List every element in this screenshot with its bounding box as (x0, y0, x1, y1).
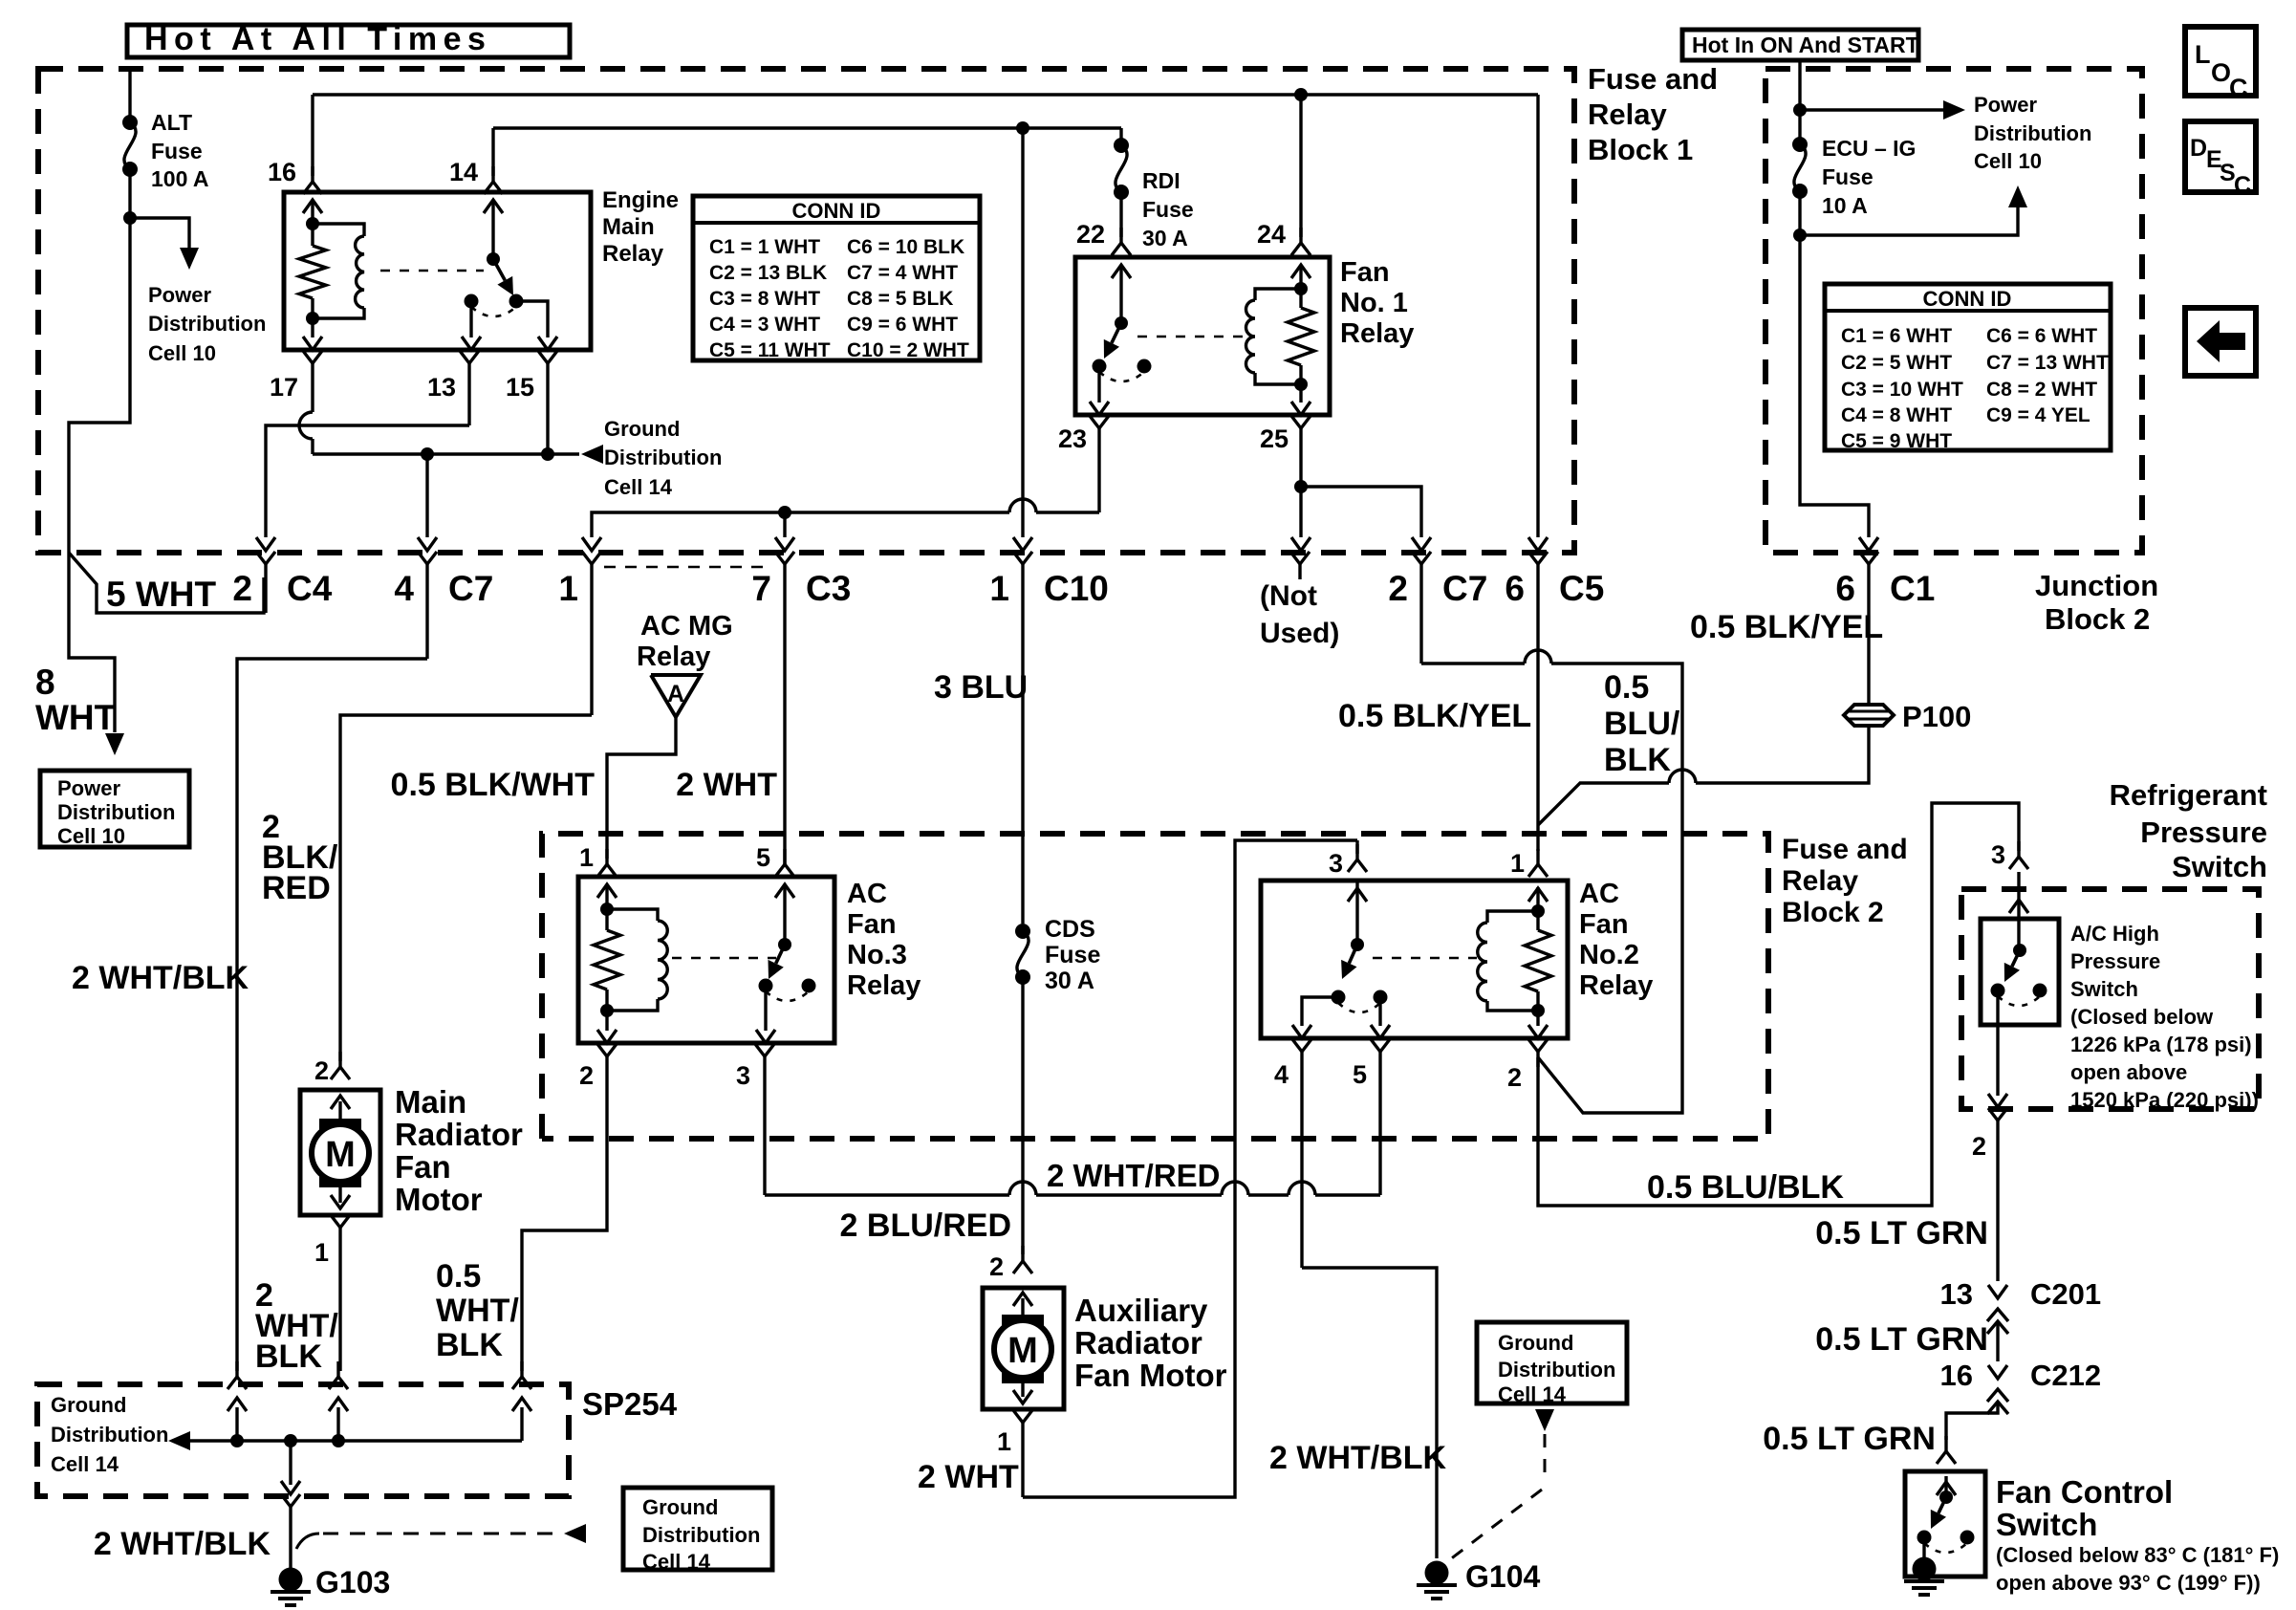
svg-text:2 WHT/BLK: 2 WHT/BLK (1269, 1440, 1447, 1476)
svg-text:Fuse: Fuse (1822, 164, 1874, 189)
label: 2 WHT/BLK (G103) (94, 1526, 271, 1562)
component: A/C High Pressure Switch box (1981, 919, 2059, 1025)
label: pin 1 (558, 569, 578, 608)
svg-text:1: 1 (579, 843, 594, 872)
svg-text:Main: Main (602, 214, 655, 240)
svg-text:1520 kPa (220 psi)): 1520 kPa (220 psi)) (2070, 1088, 2259, 1112)
connector: C7 pin 2 (1412, 552, 1431, 664)
label: 16 C212 (1940, 1359, 2102, 1392)
node: SP254 splice G103 (284, 1434, 297, 1447)
svg-text:C5 = 9 WHT: C5 = 9 WHT (1841, 430, 1952, 452)
svg-text:Fan Motor: Fan Motor (1074, 1358, 1227, 1393)
svg-text:16: 16 (268, 158, 296, 186)
wire: relay3 coil leg (605, 887, 608, 909)
node: cell-10 return branch (1793, 228, 1807, 242)
node: pin 15 tap (541, 447, 554, 461)
svg-text:0.5: 0.5 (436, 1258, 481, 1295)
wire: Fan No.1 coil leg (1299, 266, 1302, 289)
label: relay2 pin 3 (1329, 849, 1343, 878)
fuse ALT 100 A (122, 115, 138, 177)
pin 4 connector (relay2) (1292, 1039, 1311, 1268)
node: relay2 right contact (1374, 990, 1388, 1005)
label: relay3 pin 5 (756, 843, 770, 872)
wire: relay2 resistor links (1536, 911, 1539, 1011)
wire: C7 pin 4 drop (418, 454, 437, 551)
label: ECU-IG Fuse 10 A (1822, 136, 1916, 218)
svg-text:AC MG: AC MG (640, 611, 733, 642)
link: relay3 actuation (dashed) (672, 957, 776, 960)
label: 0.5 BLU/BLK (bottom) (1647, 1169, 1844, 1206)
wire: relay coil left leg (311, 200, 314, 224)
connector: pressure switch pin 3 (2009, 841, 2028, 913)
svg-text:C7 = 4 WHT: C7 = 4 WHT (847, 262, 958, 284)
wire: relay2 coil to pin 2 (1528, 1011, 1548, 1038)
svg-text:3: 3 (736, 1061, 750, 1090)
svg-text:C3 = 8 WHT: C3 = 8 WHT (709, 288, 820, 310)
svg-text:4: 4 (1274, 1060, 1289, 1089)
node: Fan No.1 coil bottom (1294, 378, 1308, 391)
svg-text:C9 = 6 WHT: C9 = 6 WHT (847, 314, 958, 336)
node: contact right (509, 294, 524, 309)
svg-text:SP254: SP254 (582, 1386, 678, 1422)
node: coil bottom junction (306, 312, 319, 325)
wire: pin 14 feed from bus (491, 128, 494, 176)
label: 7 C3 (751, 569, 851, 608)
label: 2 WHT/BLK (G104) (1269, 1440, 1447, 1476)
svg-text:2: 2 (1972, 1132, 1986, 1161)
svg-text:3: 3 (1991, 840, 2005, 869)
label: Fan No. 1 Relay (1340, 257, 1414, 349)
svg-text:100 A: 100 A (151, 166, 209, 191)
switch: AC Fan No.3 contact arm (769, 938, 792, 979)
svg-text:1226 kPa (178 psi): 1226 kPa (178 psi) (2070, 1033, 2252, 1056)
connector: pin 1 (C3) (582, 552, 601, 715)
label: G104 (1465, 1559, 1540, 1594)
component: CONN ID table (Junction Block 2) (1825, 284, 2111, 452)
wire: branch to power distribution (1800, 108, 1944, 111)
svg-text:24: 24 (1257, 220, 1286, 249)
svg-text:BLK: BLK (255, 1338, 322, 1375)
ground: fan control switch case (1904, 1557, 1944, 1596)
arrow: up to Cell 10 (2008, 185, 2027, 207)
wire: relay3 resistor links (605, 909, 608, 1011)
banner: Hot At All Times (127, 21, 570, 57)
wire: pin 25 to not-used pin (1291, 487, 1310, 551)
resistor: AC Fan No.3 relay (594, 930, 620, 990)
svg-text:C4: C4 (287, 569, 333, 608)
junction-box: Refrigerant Pressure Switch (dashed) (1961, 889, 2259, 1109)
node: C3 pin 7 tap (778, 506, 791, 519)
pin 25 connector (1291, 416, 1310, 487)
wire: 0.5 BLK/WHT AC MG relay to relay3 pin1 (607, 717, 676, 859)
svg-text:Switch: Switch (1996, 1507, 2097, 1542)
arrow: to Ground Distribution Cell 14 (581, 445, 603, 464)
wire: bus pin16 to C5 pin6 (313, 93, 1538, 96)
wire: right contact to pin 15 (516, 301, 557, 350)
svg-text:M: M (325, 1135, 356, 1175)
arc: Fan No.1 contact throw (1099, 372, 1144, 381)
svg-text:open above 93° C (199° F)): open above 93° C (199° F)) (1996, 1571, 2261, 1595)
banner: Hot In ON And START (1682, 30, 1919, 60)
wire: 2 WHT relay2 pin3 feed (1023, 840, 1357, 1497)
svg-text:3 BLU: 3 BLU (934, 669, 1028, 706)
wire: pin 25 to C7 pin 2 (1301, 487, 1431, 551)
wire: 5 WHT link from C4 pin 2 (69, 553, 264, 613)
connector: C1 pin 6 (1859, 552, 1878, 705)
connector: not used pin (1290, 552, 1310, 579)
arrow: SP254 to ground distribution (168, 1431, 190, 1450)
switch: Fan No.1 relay contact arm (1104, 316, 1128, 359)
component: DESC reference box (2185, 121, 2256, 199)
svg-text:17: 17 (270, 373, 298, 402)
svg-text:6: 6 (1835, 569, 1855, 608)
svg-text:Fuse: Fuse (1045, 942, 1100, 968)
svg-text:A/C High: A/C High (2070, 922, 2159, 946)
wire: coil top link (311, 224, 314, 246)
node: coil top junction (306, 217, 319, 230)
node: pressure switch right contact (2033, 984, 2047, 998)
svg-text:1: 1 (1510, 849, 1525, 878)
resistor: Fan No.1 relay (1288, 308, 1314, 365)
label: 6 C5 (1505, 569, 1604, 608)
label: Fuse and Relay Block 1 (1588, 62, 1718, 166)
wire: to fan control switch (1946, 1402, 1998, 1440)
svg-text:Ground: Ground (642, 1495, 718, 1519)
node: fan switch right contact (1960, 1531, 1975, 1545)
label: 0.5 LT GRN (2) (1815, 1321, 1988, 1358)
component: Power Distribution Cell 10 box (40, 771, 189, 848)
svg-text:Power: Power (57, 776, 120, 800)
wire: branch to cell 10 arrow (1800, 207, 2018, 235)
connector: C4 pin 2 (256, 552, 275, 613)
label: Refrigerant Pressure Switch (2110, 778, 2267, 883)
svg-text:1: 1 (989, 569, 1009, 608)
node: Fan No.1 coil top (1294, 282, 1308, 295)
connector: SP254 entry (motor return) (329, 1361, 348, 1441)
wire: battery feed to ALT fuse (128, 69, 131, 122)
label: aux motor pin 2 (989, 1252, 1004, 1281)
svg-text:Ground: Ground (604, 417, 680, 441)
node: relay3 coil bottom (600, 1004, 614, 1017)
arrow: ground reference down (right box) (1535, 1409, 1554, 1431)
svg-text:Junction: Junction (2035, 569, 2158, 602)
wire: branch to Power Distribution Cell 10 (130, 218, 189, 249)
label: 2 WHT (676, 767, 777, 803)
link: Fan No.1 actuation (dashed) (1137, 336, 1243, 338)
component: back-arrow reference box (2185, 308, 2256, 376)
label: 2 BLK/RED (262, 809, 338, 906)
svg-text:C4 = 3 WHT: C4 = 3 WHT (709, 314, 820, 336)
svg-text:Hot At All Times: Hot At All Times (144, 21, 491, 57)
label: pressure switch pin 2 (1972, 1132, 1986, 1161)
wire: SP254 splice bus (184, 1439, 522, 1442)
wire: pin 23 to connector pins 1 and 7 (582, 499, 1099, 551)
svg-text:Fan: Fan (847, 909, 897, 940)
fuse CDS 30 A (1015, 924, 1030, 985)
svg-text:O: O (2211, 58, 2231, 87)
label: 13 C201 (1940, 1277, 2102, 1311)
wire: fuse to junction (1798, 191, 1801, 235)
svg-text:1: 1 (558, 569, 578, 608)
svg-text:22: 22 (1076, 220, 1105, 249)
link: G104 ground reference (dashed) (1441, 1434, 1545, 1566)
label: relay2 pin 5 (1353, 1060, 1367, 1089)
coil: engine main relay winding (313, 224, 364, 318)
wire: fan switch to case ground (1922, 1537, 1925, 1562)
node: Fan No.1 right contact (1137, 359, 1152, 374)
wire: SP254 to G103 (281, 1441, 300, 1494)
svg-text:30 A: 30 A (1142, 226, 1188, 250)
label: A/C High Pressure Switch note (2070, 922, 2259, 1112)
wire: ECU-IG feed (1798, 60, 1801, 110)
hop: pin 17 wire over pin 13 wire (299, 379, 313, 454)
connector: C10 pin 1 (1013, 552, 1032, 924)
wire: relay3 left contact to pin 3 (756, 986, 775, 1043)
component: inline connector P100 (1844, 705, 1894, 726)
svg-text:Refrigerant: Refrigerant (2110, 778, 2267, 812)
svg-text:C1: C1 (1890, 569, 1935, 608)
wire: relay2 pin4 to G104 (1302, 1268, 1437, 1558)
arrow: ground reference left (564, 1524, 586, 1543)
label: motor pin 1 (314, 1238, 329, 1267)
svg-text:0.5 BLK/YEL: 0.5 BLK/YEL (1690, 609, 1883, 645)
svg-text:Motor: Motor (395, 1182, 483, 1217)
svg-text:2 BLU/RED: 2 BLU/RED (840, 1207, 1011, 1244)
wire: 0.5 BLK/YEL C7 pin2 to relay2 pin2 (1421, 650, 1682, 1113)
svg-text:Block 1: Block 1 (1588, 133, 1693, 166)
svg-text:C5: C5 (1559, 569, 1604, 608)
svg-text:M: M (1007, 1331, 1038, 1371)
label: ALT Fuse 100 A (151, 110, 209, 191)
label: 0.5 WHT/BLK (436, 1258, 519, 1363)
coil: AC Fan No.3 winding (607, 909, 667, 1011)
wire: ALT fuse to junction (128, 169, 131, 218)
svg-text:C7: C7 (448, 569, 493, 608)
svg-text:G104: G104 (1465, 1559, 1540, 1594)
svg-text:C201: C201 (2030, 1277, 2101, 1311)
svg-text:Distribution: Distribution (642, 1523, 760, 1547)
svg-text:1: 1 (314, 1238, 329, 1267)
svg-text:C212: C212 (2030, 1359, 2101, 1392)
arc: relay3 contact throw (766, 991, 809, 1001)
wire: 2 WHT/BLK from C7 pin 4 to SP254 (237, 659, 427, 1371)
label: SP254 (582, 1386, 678, 1422)
label: relay3 pin 3 (736, 1061, 750, 1090)
label: aux motor pin 1 (997, 1427, 1011, 1456)
label: AC Fan No.2 Relay (1579, 879, 1653, 1001)
label: P100 (1902, 700, 1971, 733)
label: pin 25 (1260, 424, 1289, 453)
arc: contact throw (dotted) (471, 307, 516, 316)
svg-text:Relay: Relay (1782, 865, 1858, 897)
node: relay3 coil top (600, 903, 614, 916)
svg-text:CONN ID: CONN ID (1923, 287, 2012, 311)
svg-text:Block 2: Block 2 (1782, 897, 1884, 928)
svg-text:Pressure: Pressure (2070, 949, 2160, 973)
svg-text:RED: RED (262, 870, 331, 906)
label: 2 WHT/BLK (left) (72, 960, 249, 996)
wire: bus pin14 to RDI fuse (493, 126, 1121, 129)
svg-text:Hot In ON And START: Hot In ON And START (1692, 33, 1919, 57)
svg-text:Cell 14: Cell 14 (1498, 1382, 1567, 1406)
link: G103 ground reference (dashed) (296, 1534, 558, 1549)
pin 3 connector (relay2) (1348, 840, 1367, 902)
wire: relay2 left contact to pin 4 (1292, 997, 1338, 1038)
svg-text:Relay: Relay (1579, 970, 1653, 1001)
label: (Not Used) (1260, 580, 1339, 649)
node: ALT distribution junction (123, 211, 137, 225)
svg-text:Cell 10: Cell 10 (148, 341, 216, 365)
connector: C5 pin 6 (1528, 552, 1548, 851)
connector: G103 lead (281, 1494, 300, 1568)
svg-text:2: 2 (579, 1061, 594, 1090)
svg-text:No.3: No.3 (847, 940, 907, 970)
label: 4 C7 (394, 569, 493, 608)
label: pin 13 (427, 373, 456, 402)
switch: engine main relay contact arm (487, 252, 513, 295)
wire: pin 13 to C4 pin 2 (256, 425, 469, 551)
connector: C7 pin 4 (418, 552, 437, 659)
svg-text:8: 8 (35, 663, 55, 702)
wire: pin 24 feed (1299, 95, 1302, 237)
svg-text:13: 13 (427, 373, 456, 402)
pin 23 connector (1090, 416, 1109, 512)
fuse ECU-IG 10 A (1792, 137, 1808, 199)
label: Engine Main Relay (602, 187, 679, 267)
svg-text:Engine: Engine (602, 187, 679, 213)
svg-text:Distribution: Distribution (1498, 1358, 1615, 1382)
svg-text:ALT: ALT (151, 110, 192, 135)
svg-text:7: 7 (751, 569, 771, 608)
svg-text:C3 = 10 WHT: C3 = 10 WHT (1841, 379, 1963, 401)
label: relay3 pin 1 (579, 843, 594, 872)
link: relay2 actuation (dashed) (1373, 957, 1477, 960)
pin 22 connector (1112, 228, 1131, 278)
node: SP254 splice left (230, 1434, 244, 1447)
component: AC Fan No.2 Relay box (1261, 881, 1568, 1038)
label: pin 24 (1257, 220, 1286, 249)
svg-text:13: 13 (1940, 1277, 1973, 1311)
svg-text:Power: Power (1974, 93, 2037, 117)
arc: fan switch throw (1924, 1543, 1967, 1553)
label: pressure switch pin 3 (1991, 840, 2005, 869)
label: pin 15 (506, 373, 534, 402)
junction-box: splice SP254 (dashed) (37, 1384, 569, 1496)
wire: switch common (491, 200, 494, 259)
svg-text:G103: G103 (315, 1565, 390, 1599)
wire: pin 16 feed from bus (311, 95, 314, 176)
node: SP254 splice right (332, 1434, 345, 1447)
label: pin 23 (1058, 424, 1087, 453)
wire: CDS fuse to auxiliary fan motor (1021, 977, 1024, 1254)
svg-text:C6 = 10 BLK: C6 = 10 BLK (847, 236, 964, 258)
label: 2 WHT/BLK (motor return) (255, 1277, 338, 1375)
node: Fan No.1 left contact (1093, 359, 1107, 374)
wire: C3 pin 7 drop (775, 512, 794, 551)
label: 3 BLU (934, 669, 1028, 706)
label: relay2 pin 4 (1274, 1060, 1289, 1089)
svg-text:C3: C3 (806, 569, 851, 608)
svg-text:ECU – IG: ECU – IG (1822, 136, 1916, 161)
svg-text:Block 2: Block 2 (2045, 602, 2150, 636)
wire: ALT feed down left side (69, 218, 130, 732)
svg-text:0.5 LT GRN: 0.5 LT GRN (1763, 1421, 1936, 1457)
resistor: engine main relay (299, 246, 326, 298)
label: pin 16 (268, 158, 296, 186)
svg-text:3: 3 (1329, 849, 1343, 878)
wire: fan switch common (1944, 1476, 1947, 1497)
svg-text:Cell 10: Cell 10 (57, 824, 125, 848)
svg-text:30 A: 30 A (1045, 968, 1094, 994)
label: pin 17 (270, 373, 298, 402)
connector C212 pin 16 (1987, 1365, 2008, 1414)
wire: left contact to pin 13 (462, 301, 481, 350)
label: pin 14 (449, 158, 478, 186)
svg-text:Fan: Fan (395, 1149, 451, 1185)
svg-text:C10: C10 (1044, 569, 1109, 608)
svg-text:(Closed below 83° C (181° F): (Closed below 83° C (181° F) (1996, 1543, 2279, 1567)
svg-text:No. 1: No. 1 (1340, 288, 1408, 318)
svg-text:15: 15 (506, 373, 534, 402)
svg-text:AC: AC (847, 879, 887, 909)
connector C201 pin 13 (1987, 1285, 2008, 1361)
pin 5 connector (relay2) (1371, 1039, 1390, 1195)
svg-text:C5 = 11 WHT: C5 = 11 WHT (709, 339, 831, 361)
svg-text:6: 6 (1505, 569, 1525, 608)
wire: resistor links (1299, 289, 1302, 384)
node: relay3 left contact (759, 979, 773, 993)
pin 2 connector (relay2) (1528, 1039, 1548, 1067)
pin 5 connector (relay3) (775, 849, 794, 898)
svg-text:BLK: BLK (1604, 742, 1671, 778)
label: 0.5 BLU/BLK (notch) (1604, 669, 1680, 778)
svg-text:Distribution: Distribution (1974, 121, 2091, 145)
svg-text:2 WHT/BLK: 2 WHT/BLK (72, 960, 249, 996)
svg-text:open above: open above (2070, 1060, 2187, 1084)
svg-text:0.5 BLK/YEL: 0.5 BLK/YEL (1338, 698, 1531, 734)
label: Main Radiator Fan Motor (395, 1084, 523, 1217)
svg-text:C: C (2234, 172, 2251, 199)
label: Power Distribution Cell 10 (junction block) (1974, 93, 2091, 173)
svg-text:BLK: BLK (436, 1327, 503, 1363)
junction-box: Fuse and Relay Block 1 (dashed) (38, 69, 1574, 553)
pin 3 connector (relay3) (755, 1044, 774, 1195)
wire: RDI fuse to pin 22 (1119, 192, 1122, 237)
label: 0.5 BLK/YEL (right) (1690, 609, 1883, 645)
wire: pressure switch output (1988, 990, 2007, 1107)
svg-text:0.5: 0.5 (1604, 669, 1649, 706)
svg-text:Power: Power (148, 283, 211, 307)
wire: pin 22 to switch common (1119, 266, 1122, 323)
svg-text:C8 = 2 WHT: C8 = 2 WHT (1986, 379, 2097, 401)
label: 0.5 LT GRN (1) (1815, 1215, 1988, 1251)
wire: relay2 switch common (1355, 882, 1358, 945)
svg-text:2: 2 (1507, 1063, 1522, 1092)
label: relay2 pin 2 (1507, 1063, 1522, 1092)
svg-text:0.5 LT GRN: 0.5 LT GRN (1815, 1215, 1988, 1251)
component: Ground Distribution Cell 14 box (bottom) (623, 1488, 772, 1574)
resistor: AC Fan No.2 relay (1525, 930, 1551, 991)
svg-text:Relay: Relay (1588, 98, 1667, 131)
svg-text:C1 = 1 WHT: C1 = 1 WHT (709, 236, 820, 258)
label: relay3 pin 2 (579, 1061, 594, 1090)
svg-text:C6 = 6 WHT: C6 = 6 WHT (1986, 325, 2097, 347)
label: 2 WHT (918, 1459, 1019, 1495)
svg-text:Fuse and: Fuse and (1782, 834, 1908, 865)
svg-text:C2 = 5 WHT: C2 = 5 WHT (1841, 352, 1952, 374)
connector: main fan motor pin 1 (331, 1215, 350, 1371)
ground G103 (271, 1568, 311, 1606)
